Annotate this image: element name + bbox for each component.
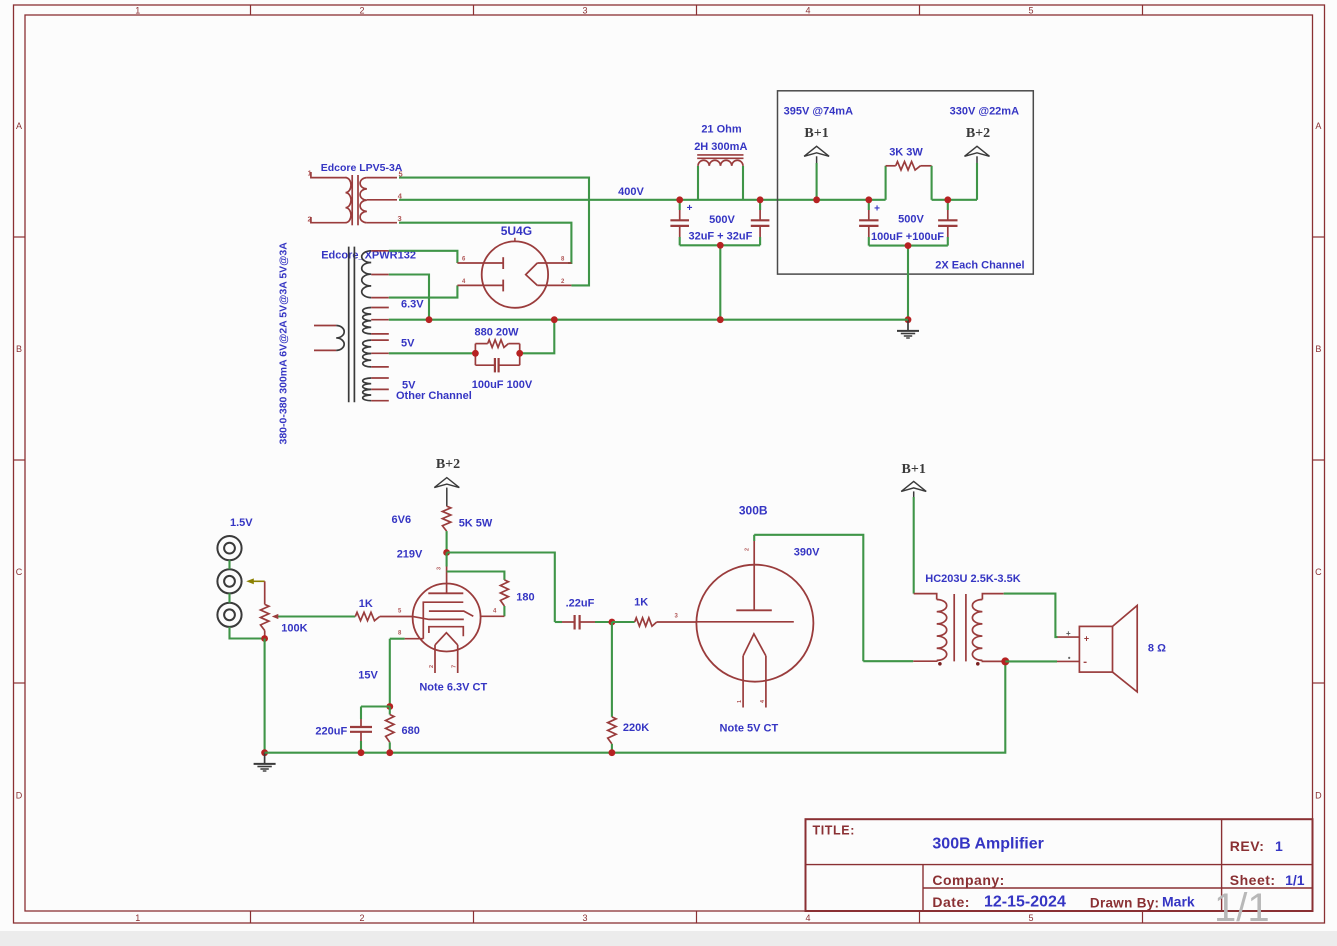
svg-text:3: 3 (582, 913, 587, 923)
svg-text:180: 180 (516, 592, 534, 604)
svg-text:B: B (1315, 344, 1321, 354)
svg-text:1/1: 1/1 (1285, 872, 1305, 888)
svg-text:Company:: Company: (932, 872, 1004, 888)
svg-text:3: 3 (398, 214, 402, 223)
svg-text:+: + (1066, 629, 1071, 638)
svg-text:330V @22mA: 330V @22mA (950, 106, 1019, 118)
svg-text:500V: 500V (709, 214, 735, 226)
svg-text:1K: 1K (359, 598, 373, 610)
svg-text:220uF: 220uF (315, 725, 347, 737)
svg-text:+: + (687, 203, 693, 214)
svg-text:B+1: B+1 (804, 126, 828, 141)
svg-text:300B: 300B (739, 504, 768, 518)
svg-text:32uF + 32uF: 32uF + 32uF (688, 230, 752, 242)
svg-text:Edcore LPV5-3A: Edcore LPV5-3A (321, 162, 403, 174)
svg-text:12-15-2024: 12-15-2024 (984, 894, 1066, 911)
svg-text:7: 7 (452, 665, 458, 668)
svg-text:2: 2 (745, 548, 751, 551)
svg-text:6V6: 6V6 (392, 514, 412, 526)
svg-text:3K 3W: 3K 3W (889, 146, 923, 158)
svg-text:1K: 1K (634, 596, 648, 608)
svg-text:3: 3 (582, 5, 587, 15)
svg-text:4: 4 (805, 913, 810, 923)
svg-text:100K: 100K (281, 623, 307, 635)
svg-text:HC203U 2.5K-3.5K: HC203U 2.5K-3.5K (925, 573, 1020, 585)
svg-text:5U4G: 5U4G (501, 224, 532, 238)
svg-text:500V: 500V (898, 214, 924, 226)
svg-text:3: 3 (437, 567, 443, 570)
svg-text:C: C (16, 567, 23, 577)
svg-text:2X Each Channel: 2X Each Channel (935, 259, 1024, 271)
svg-text:1.5V: 1.5V (230, 517, 253, 529)
svg-text:100uF 100V: 100uF 100V (472, 379, 533, 391)
svg-text:Other Channel: Other Channel (396, 390, 472, 402)
svg-text:5V: 5V (401, 338, 415, 350)
svg-text:+: + (1084, 633, 1089, 643)
svg-text:A: A (1315, 121, 1321, 131)
svg-text:1: 1 (737, 700, 743, 703)
svg-text:5K 5W: 5K 5W (459, 518, 493, 530)
svg-text:+: + (874, 204, 880, 215)
svg-text:1: 1 (135, 5, 140, 15)
svg-text:395V @74mA: 395V @74mA (784, 106, 853, 118)
svg-text:B: B (16, 344, 22, 354)
svg-text:A: A (16, 121, 22, 131)
svg-text:Note 5V CT: Note 5V CT (720, 722, 779, 734)
svg-text:Drawn By:: Drawn By: (1090, 895, 1159, 910)
svg-text:Date:: Date: (932, 894, 970, 910)
svg-text:Note 6.3V CT: Note 6.3V CT (419, 681, 487, 693)
svg-text:219V: 219V (397, 549, 423, 561)
svg-text:2: 2 (359, 913, 364, 923)
svg-text:D: D (16, 790, 23, 800)
svg-text:1: 1 (1275, 838, 1283, 854)
svg-text:390V: 390V (794, 547, 820, 559)
svg-text:880 20W: 880 20W (474, 327, 519, 339)
svg-text:2: 2 (359, 5, 364, 15)
svg-text:REV:: REV: (1230, 838, 1265, 854)
svg-text:4: 4 (805, 5, 810, 15)
svg-text:.22uF: .22uF (566, 598, 595, 610)
svg-text:15V: 15V (358, 670, 378, 682)
svg-text:B+1: B+1 (902, 462, 926, 477)
svg-text:D: D (1315, 790, 1322, 800)
svg-text:400V: 400V (618, 186, 644, 198)
svg-text:5: 5 (1028, 5, 1033, 15)
svg-text:21 Ohm: 21 Ohm (701, 124, 742, 136)
svg-text:Mark: Mark (1162, 894, 1195, 910)
svg-text:2H 300mA: 2H 300mA (694, 141, 747, 153)
svg-text:2: 2 (429, 665, 435, 668)
svg-text:380-0-380 300mA 6V@2A 5V@3A 5V: 380-0-380 300mA 6V@2A 5V@3A 5V@3A (278, 242, 290, 445)
svg-text:6.3V: 6.3V (401, 299, 424, 311)
svg-text:5: 5 (1028, 913, 1033, 923)
svg-text:B+2: B+2 (436, 457, 460, 472)
svg-text:300B Amplifier: 300B Amplifier (932, 836, 1043, 853)
svg-text:8 Ω: 8 Ω (1148, 642, 1166, 654)
svg-text:1/1: 1/1 (1214, 886, 1270, 930)
svg-text:B+2: B+2 (966, 126, 990, 141)
svg-text:TITLE:: TITLE: (813, 824, 855, 838)
svg-text:220K: 220K (623, 722, 649, 734)
svg-text:100uF +100uF: 100uF +100uF (871, 231, 944, 243)
svg-text:1: 1 (135, 913, 140, 923)
svg-text:C: C (1315, 567, 1322, 577)
svg-text:680: 680 (402, 725, 420, 737)
